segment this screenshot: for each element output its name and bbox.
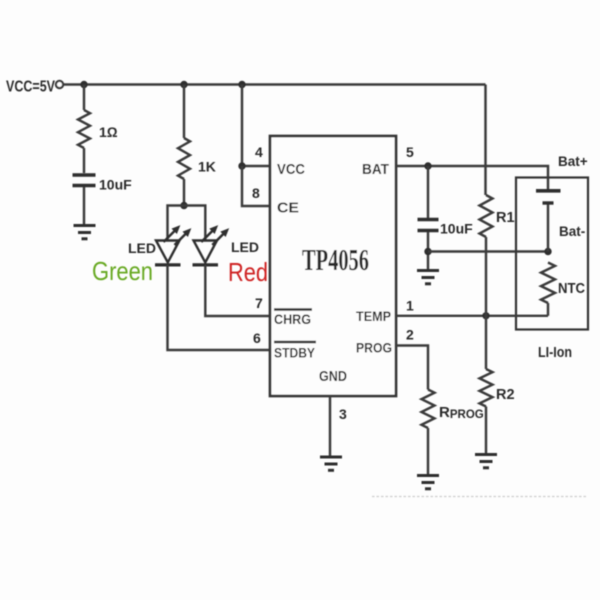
op-amp U1 TP4056 IC box	[270, 136, 396, 396]
svg-text:1: 1	[406, 298, 414, 314]
wire rail down to R1	[484, 85, 486, 196]
ground below RPROG	[417, 476, 439, 489]
wire LED anode bracket	[168, 206, 206, 241]
wire cap to ground right	[427, 232, 429, 269]
svg-text:VCC=5V: VCC=5V	[6, 79, 56, 96]
capacitor 10uF left plate bottom	[73, 184, 96, 187]
junction dot Bat-/NTC	[544, 248, 551, 255]
wire BAT junction to cap	[427, 166, 429, 218]
svg-text:R2: R2	[496, 387, 515, 403]
svg-text:Bat-: Bat-	[559, 224, 585, 239]
junction dot cap/Bat- wire	[424, 248, 431, 255]
svg-text:10uF: 10uF	[99, 177, 132, 193]
svg-text:R1: R1	[496, 210, 515, 226]
junction dot LED anode bracket	[180, 202, 187, 209]
LED green diode triangle	[156, 241, 180, 263]
wire pin8 branch	[242, 166, 270, 206]
IC pin label CHRG overline	[274, 308, 312, 310]
wire top VCC rail	[64, 83, 486, 85]
svg-text:10uF: 10uF	[440, 221, 473, 237]
svg-text:LED: LED	[231, 239, 259, 255]
svg-text:LED: LED	[128, 240, 156, 256]
svg-text:3: 3	[339, 406, 347, 422]
wire NTC bottom to TEMP net	[547, 303, 549, 316]
resistor RPROG	[422, 390, 435, 429]
LED red cathode bar	[193, 263, 219, 266]
junction dot BAT/cap	[424, 162, 431, 169]
svg-text:1K: 1K	[198, 159, 216, 175]
wire pin4 branch	[242, 85, 270, 167]
wire green LED cathode to pin6	[168, 265, 271, 350]
junction dot rail/1ohm branch	[80, 81, 87, 88]
wire 1K to LED bracket	[183, 179, 185, 206]
svg-text:Green: Green	[92, 256, 153, 286]
wire red LED cathode to pin7	[205, 265, 270, 316]
junction dot rail/pin4 branch	[238, 81, 245, 88]
VCC input terminal circle	[56, 81, 63, 88]
svg-text:7: 7	[255, 295, 263, 311]
svg-text:STDBY: STDBY	[274, 346, 315, 361]
wire RPROG to ground	[427, 428, 429, 474]
svg-text:CE: CE	[277, 201, 299, 217]
ground below IC pin3	[320, 457, 342, 470]
battery positive plate	[536, 189, 561, 193]
capacitor 10uF right plate bottom	[418, 229, 439, 232]
LED red diode triangle	[194, 241, 218, 263]
ground left	[74, 226, 96, 239]
svg-text:TP4056: TP4056	[302, 242, 369, 277]
junction dot TEMP/R1R2	[482, 312, 489, 319]
wire R2 to ground	[485, 407, 487, 454]
resistor R2	[480, 369, 493, 407]
junction dot rail/1K branch	[180, 81, 187, 88]
wire 1ohm branch top	[83, 85, 85, 111]
svg-text:TEMP: TEMP	[356, 308, 391, 324]
svg-text:Red: Red	[228, 257, 268, 287]
svg-text:4: 4	[255, 144, 263, 160]
capacitor 10uF left plate top	[73, 173, 96, 176]
svg-text:NTC: NTC	[558, 281, 585, 297]
wire R1 to TEMP junction to R2	[485, 237, 487, 369]
svg-text:2: 2	[406, 327, 414, 343]
ground below R2	[475, 455, 497, 468]
svg-text:Bat+: Bat+	[558, 154, 588, 169]
svg-text:CHRG: CHRG	[274, 311, 311, 327]
svg-text:GND: GND	[319, 369, 347, 385]
svg-text:RPROG: RPROG	[439, 404, 484, 421]
faint watermark line	[372, 496, 588, 498]
svg-text:LI-Ion: LI-Ion	[538, 345, 572, 361]
wire TEMP net	[396, 315, 548, 317]
resistor 1 ohm	[78, 110, 90, 148]
svg-text:8: 8	[252, 185, 260, 201]
svg-text:1Ω: 1Ω	[99, 124, 118, 140]
battery Li-Ion box	[516, 178, 588, 330]
LED green cathode bar	[155, 263, 181, 266]
svg-text:BAT: BAT	[362, 162, 389, 178]
IC pin label STDBY overline	[274, 341, 316, 343]
resistor NTC	[541, 263, 555, 304]
resistor R1	[480, 195, 493, 237]
svg-text:6: 6	[253, 330, 261, 346]
wire GND pin3 to ground	[329, 396, 331, 456]
battery negative plate	[543, 201, 554, 204]
junction dot pin4/pin8	[238, 162, 245, 169]
LED red emission arrows	[201, 226, 228, 245]
capacitor 10uF right plate top	[418, 218, 439, 221]
wire PROG pin2 to RPROG	[396, 346, 428, 390]
ground below right cap	[417, 271, 439, 284]
wire 1K branch top	[183, 85, 185, 139]
wire BAT pin5 to battery	[396, 166, 548, 189]
LED green emission arrows	[164, 226, 191, 245]
svg-text:VCC: VCC	[277, 162, 305, 178]
resistor 1K	[178, 138, 190, 179]
wire battery to Bat- node	[547, 205, 549, 252]
wire 1ohm to cap	[83, 148, 85, 173]
svg-text:5: 5	[406, 144, 414, 160]
svg-text:PROG: PROG	[356, 340, 392, 356]
wire Bat- net	[428, 250, 548, 252]
wire cap to ground	[83, 187, 85, 224]
